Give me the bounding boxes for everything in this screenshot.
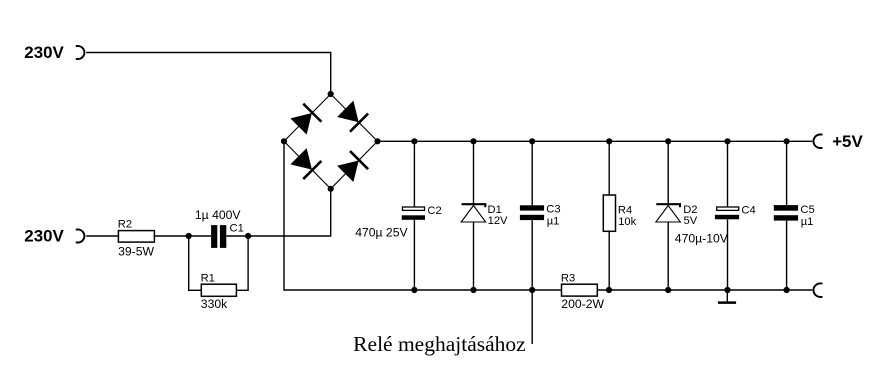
label R2 [118,219,132,231]
label 39-5W [118,245,154,259]
node B (right of C1) [245,233,251,239]
resistor R2 [118,231,154,243]
wire (leader line from relay note to C3/R3 node) [531,290,533,344]
label Relé meghajtásához [353,332,526,356]
wire (R1 to node B) [236,236,248,290]
svg-text:C1: C1 [230,222,244,234]
node bridge bottom [328,186,334,192]
wire (R2 to node A) [154,235,188,237]
connector J2 (230V bottom) [76,230,85,243]
wire (C5 bottom branch) [786,221,788,290]
label 5V [684,215,698,227]
label C3 [546,204,560,216]
svg-text:Relé meghajtásához: Relé meghajtásához [353,332,526,356]
diode bridge D-topright (anode top node, cathode right node) [336,100,368,132]
svg-text:39-5W: 39-5W [118,245,154,259]
diode bridge D-topleft (anode left node, cathode top node) [289,104,321,136]
label µ1 (C5) [801,216,814,228]
svg-text:12V: 12V [488,215,508,227]
wire (C1 to node B) [226,235,248,237]
diode bridge D-bottomright (anode bottom node, cathode right node) [336,151,368,183]
svg-text:R3: R3 [561,272,575,284]
label 200-2W [561,297,604,311]
node C3 top [529,138,535,144]
svg-text:µ1: µ1 [547,216,560,228]
node C3 bottom [529,287,535,293]
wire (C2 bottom branch) [413,220,415,290]
svg-text:+5V: +5V [832,132,863,151]
node C5 bottom [784,287,790,293]
label C2 [427,205,441,217]
label +5V [832,132,863,151]
wire (J2 to R2) [86,235,118,237]
capacitor C5 (µ1) [774,205,798,220]
resistor R3 [562,284,598,296]
node D1 top [470,138,476,144]
node C4 top [724,138,730,144]
diode D2 (zener 5V) [656,204,680,222]
wire (D2 top branch) [667,141,669,203]
label 330k [201,297,228,311]
wire (C5 top branch) [786,141,788,205]
wire (D1 bottom branch) [473,222,475,290]
node R4 top [606,138,612,144]
label 470µ 25V [355,226,408,240]
label 12V [488,215,508,227]
node C4 bottom [724,287,730,293]
label 1µ 400V [195,208,242,222]
node D2 bottom [665,287,671,293]
wire (C3 bottom branch) [531,220,533,290]
wire (node A to C1) [189,235,211,237]
label 470µ-10V [675,232,729,246]
svg-text:200-2W: 200-2W [561,297,604,311]
node C2 bottom [411,287,417,293]
resistor R1 [201,284,236,296]
svg-text:C2: C2 [427,205,441,217]
wire (node A down to R1) [189,236,202,290]
connector J4 (0V bottom right) [813,283,822,297]
label R4 [618,204,632,216]
wire (230V top to bridge top node) [86,53,331,95]
label C5 [800,204,814,216]
label R3 [561,272,575,284]
label 10k [618,216,636,228]
svg-text:R4: R4 [618,204,632,216]
label C4 [741,204,755,216]
node D2 top [665,138,671,144]
svg-text:C3: C3 [546,204,560,216]
svg-text:µ1: µ1 [801,216,814,228]
wire (node B to bridge bottom) [248,189,331,236]
wire (top rail: bridge right node to +5V connector) [378,140,813,142]
wire (C4 bottom branch) [727,219,729,290]
node bridge top [328,91,334,97]
wire (R4 top branch) [608,141,610,195]
svg-text:C5: C5 [800,204,814,216]
svg-text:D2: D2 [683,204,697,216]
wire (bottom rail left: bridge left node down then right to R3) [284,141,562,290]
connector J1 (230V top) [76,46,85,59]
svg-text:10k: 10k [618,216,636,228]
svg-text:1µ 400V: 1µ 400V [195,208,242,222]
svg-text:230V: 230V [24,227,64,246]
svg-text:470µ-10V: 470µ-10V [675,232,729,246]
wire (bottom rail right: R3 to bottom connector) [597,289,812,291]
label D2 [683,204,697,216]
node A (left of C1) [186,233,192,239]
capacitor C1 [211,225,226,248]
svg-text:R2: R2 [118,219,132,231]
svg-text:470µ 25V: 470µ 25V [355,226,408,240]
wire (bridge frame diamond) [284,94,378,189]
svg-text:C4: C4 [741,204,755,216]
svg-text:D1: D1 [488,204,502,216]
wire (C4 top branch) [727,141,729,206]
label C1 [230,222,244,234]
node R4 bottom [606,287,612,293]
wire (C3 top branch) [531,141,533,205]
label R1 [201,272,215,284]
ground [718,290,736,303]
svg-text:R1: R1 [201,272,215,284]
node bridge right [374,138,380,144]
diode D1 (zener 12V) [461,204,485,222]
wire (C2 top branch) [413,141,415,206]
node C2 top [411,138,417,144]
wire (D2 bottom branch) [667,222,669,290]
connector J3 (+5V) [813,135,822,149]
label 230V (bottom input) [24,227,64,246]
label 230V (top input) [24,43,64,62]
label µ1 (C3) [547,216,560,228]
resistor R4 [603,195,615,231]
svg-text:330k: 330k [201,297,228,311]
wire (R4 bottom branch) [608,231,610,290]
node C5 top [784,138,790,144]
capacitor C4 (electrolytic 470µ-10V) [715,207,739,219]
capacitor C2 (electrolytic 470µ 25V) [402,207,425,220]
wire (D1 top branch) [473,141,475,203]
capacitor C3 (µ1) [520,205,544,220]
label D1 [488,204,502,216]
svg-text:5V: 5V [684,215,698,227]
diode bridge D-bottomleft (anode left node, cathode bottom node) [289,147,321,179]
node D1 bottom [470,287,476,293]
svg-text:230V: 230V [24,43,64,62]
node bridge left [281,138,287,144]
